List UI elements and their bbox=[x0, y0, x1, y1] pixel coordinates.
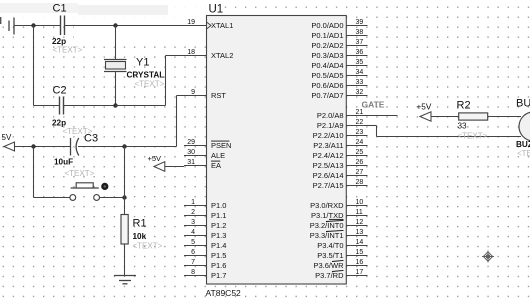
svg-text:28: 28 bbox=[356, 179, 364, 186]
svg-text:P0.6/AD6: P0.6/AD6 bbox=[311, 81, 343, 90]
svg-text:P3.0/RXD: P3.0/RXD bbox=[310, 201, 344, 210]
svg-text:8: 8 bbox=[191, 269, 195, 276]
ground symbol left (rotated, at left edge) bbox=[9, 18, 14, 35]
svg-text:P0.1/AD1: P0.1/AD1 bbox=[311, 31, 343, 40]
svg-text:C3: C3 bbox=[84, 133, 98, 145]
svg-text:18: 18 bbox=[187, 49, 195, 56]
svg-text:U1: U1 bbox=[209, 4, 224, 16]
svg-text:C1: C1 bbox=[53, 3, 67, 15]
svg-text:R2: R2 bbox=[457, 100, 471, 112]
buzzer BU1 (clipped at right edge) bbox=[519, 112, 530, 141]
svg-text:33: 33 bbox=[458, 122, 468, 131]
svg-text:9: 9 bbox=[191, 89, 195, 96]
wire: P2.1 route down bbox=[376, 126, 378, 137]
svg-text:P0.4/AD4: P0.4/AD4 bbox=[311, 61, 343, 70]
svg-text:P2.6/A14: P2.6/A14 bbox=[313, 171, 344, 180]
wire: x=33 vertical down to C2 row bbox=[33, 26, 35, 106]
power arrow +5V (buzzer supply) bbox=[417, 103, 432, 122]
svg-text:4: 4 bbox=[191, 229, 195, 236]
svg-text:+5V: +5V bbox=[148, 154, 162, 163]
wire: XTAL2 net horizontal to x=165 bbox=[116, 105, 166, 107]
white wash band under C1 row bbox=[74, 26, 306, 40]
svg-text:33: 33 bbox=[356, 79, 364, 86]
svg-text:P0.5/AD5: P0.5/AD5 bbox=[311, 71, 343, 80]
power arrow 5V (left edge, RST net) bbox=[2, 133, 15, 151]
svg-text:35: 35 bbox=[356, 59, 364, 66]
svg-text:1: 1 bbox=[191, 199, 195, 206]
svg-text:XTAL2: XTAL2 bbox=[211, 51, 233, 60]
U1 left pin numbers bbox=[187, 19, 195, 276]
svg-text:GATE: GATE bbox=[362, 100, 385, 110]
ground (bottom of R1) bbox=[114, 276, 136, 284]
wire: R1 bottom to ground bbox=[124, 244, 126, 276]
wire: +5V to EA pin 31 bbox=[165, 166, 184, 168]
capacitor C3 (electrolytic) bbox=[71, 138, 79, 156]
svg-text:2: 2 bbox=[191, 209, 195, 216]
svg-text:10: 10 bbox=[356, 199, 364, 206]
U1 right pin numbers bbox=[356, 19, 364, 276]
svg-text:AT89C52: AT89C52 bbox=[206, 288, 242, 298]
svg-text:ALE: ALE bbox=[211, 151, 225, 160]
junction node on top wire x=33 bbox=[31, 23, 35, 27]
U1 left pin names bbox=[211, 21, 233, 280]
svg-text:3: 3 bbox=[191, 219, 195, 226]
resistor R1 bbox=[121, 215, 128, 245]
svg-text:25: 25 bbox=[356, 149, 364, 156]
svg-text:P2.5/A13: P2.5/A13 bbox=[313, 161, 344, 170]
svg-text:P1.7: P1.7 bbox=[211, 271, 226, 280]
svg-text:P0.7/AD7: P0.7/AD7 bbox=[311, 91, 343, 100]
wire: button left lead bbox=[34, 197, 70, 199]
svg-text:RST: RST bbox=[211, 91, 226, 100]
wire: RST net vertical x=176 bbox=[176, 96, 178, 147]
svg-text:P3.2/INT0: P3.2/INT0 bbox=[310, 221, 344, 230]
svg-text:P3.4/T0: P3.4/T0 bbox=[317, 241, 343, 250]
wire: 5V arrow to C3 left plate bbox=[15, 146, 71, 148]
svg-text:17: 17 bbox=[356, 269, 364, 276]
svg-text:7: 7 bbox=[191, 259, 195, 266]
svg-text:<TE: <TE bbox=[517, 149, 530, 158]
wire: C2 right plate to crystal bottom junction bbox=[64, 105, 116, 107]
svg-text:P1.6: P1.6 bbox=[211, 261, 226, 270]
svg-text:PSEN: PSEN bbox=[211, 141, 231, 150]
svg-text:<TEXT>: <TEXT> bbox=[53, 46, 83, 55]
svg-text:P1.0: P1.0 bbox=[211, 201, 226, 210]
wire: GATE net from pin 21 bbox=[368, 115, 398, 117]
button interaction knob bbox=[101, 183, 108, 190]
svg-text:<TEXT>: <TEXT> bbox=[458, 132, 488, 141]
origin marker (diamond crosshair) bbox=[482, 251, 494, 263]
svg-text:P1.5: P1.5 bbox=[211, 251, 226, 260]
junction node on top wire x=115 bbox=[113, 23, 117, 27]
svg-text:P2.0/A8: P2.0/A8 bbox=[317, 111, 344, 120]
wire: XTAL2 net vertical x=165 bbox=[165, 56, 167, 106]
svg-text:P2.7/A15: P2.7/A15 bbox=[313, 181, 344, 190]
svg-text:P3.1/TXD: P3.1/TXD bbox=[311, 211, 344, 220]
svg-text:P3.6/WR: P3.6/WR bbox=[313, 261, 344, 270]
wire: crystal bottom to XTAL2 net bbox=[115, 72, 117, 106]
svg-text:10uF: 10uF bbox=[54, 158, 73, 167]
capacitor C1 bbox=[61, 16, 65, 36]
wire: R2 right to buzzer top terminal bbox=[488, 116, 521, 118]
wire: C2 left plate to x=33 vertical bbox=[34, 105, 60, 107]
wire: x=33 vertical down to push button row bbox=[33, 147, 35, 198]
wire: P2.1 route right bbox=[368, 125, 377, 127]
svg-text:P1.4: P1.4 bbox=[211, 241, 226, 250]
junction node RST rail x=33 bbox=[31, 144, 35, 148]
U1 left pin stub wires bbox=[184, 26, 207, 276]
wire: C1 right plate to U1 XTAL1 pin bbox=[65, 25, 207, 27]
svg-text:37: 37 bbox=[356, 39, 364, 46]
svg-text:32: 32 bbox=[356, 89, 364, 96]
XTAL1 clock input marker bbox=[207, 22, 212, 29]
crystal Y1 bbox=[104, 60, 127, 72]
wire: P2.1 route to buzzer bottom terminal bbox=[377, 136, 522, 138]
wire: XTAL2 net into U1 pin 18 bbox=[166, 55, 207, 57]
svg-text:XTAL1: XTAL1 bbox=[211, 21, 233, 30]
svg-text:P2.1/A9: P2.1/A9 bbox=[317, 121, 344, 130]
svg-text:24: 24 bbox=[356, 139, 364, 146]
svg-text:38: 38 bbox=[356, 29, 364, 36]
svg-text:11: 11 bbox=[356, 209, 363, 216]
wire: ground to C1 left plate (XTAL1 net) bbox=[14, 25, 61, 27]
svg-text:36: 36 bbox=[356, 49, 364, 56]
grey smudge streak top-left bbox=[0, 3, 78, 13]
svg-text:39: 39 bbox=[356, 19, 364, 26]
svg-text:P3.5/T1: P3.5/T1 bbox=[317, 251, 343, 260]
svg-text:Y1: Y1 bbox=[136, 57, 149, 69]
svg-text:14: 14 bbox=[356, 239, 364, 246]
svg-text:19: 19 bbox=[187, 19, 195, 26]
U1 right pin names bbox=[310, 21, 344, 280]
power arrow +5V (EA pin) bbox=[148, 154, 165, 171]
svg-text:10k: 10k bbox=[133, 232, 147, 241]
svg-text:6: 6 bbox=[191, 249, 195, 256]
svg-text:+5V: +5V bbox=[417, 103, 432, 112]
svg-text:31: 31 bbox=[187, 159, 195, 166]
svg-text:15: 15 bbox=[356, 249, 364, 256]
push button (reset switch) bbox=[70, 183, 100, 201]
junction node button-right x=124.5 bbox=[122, 195, 126, 199]
IC U1 AT89C52 body bbox=[207, 16, 347, 285]
svg-text:P1.2: P1.2 bbox=[211, 221, 226, 230]
resistor R2 bbox=[459, 113, 488, 120]
svg-text:<TEXT>: <TEXT> bbox=[133, 242, 163, 251]
svg-text:<TEXT>: <TEXT> bbox=[135, 80, 165, 89]
svg-text:26: 26 bbox=[356, 159, 364, 166]
svg-text:5V: 5V bbox=[2, 133, 12, 142]
svg-text:5: 5 bbox=[191, 239, 195, 246]
svg-text:P2.4/A12: P2.4/A12 bbox=[313, 151, 344, 160]
svg-text:27: 27 bbox=[356, 169, 364, 176]
svg-text:<TEXT>: <TEXT> bbox=[65, 169, 95, 178]
svg-text:P3.7/RD: P3.7/RD bbox=[315, 271, 344, 280]
svg-text:P3.3/INT1: P3.3/INT1 bbox=[310, 231, 344, 240]
junction node crystal bottom x=115 bbox=[113, 103, 117, 107]
junction node RST rail x=124.5 bbox=[122, 144, 126, 148]
wire: vertical x=124.5 from RST rail to R1 top bbox=[124, 147, 126, 215]
svg-text:22: 22 bbox=[356, 119, 364, 126]
svg-text:CRYSTAL: CRYSTAL bbox=[127, 71, 165, 80]
svg-text:21: 21 bbox=[356, 109, 364, 116]
wire: button right lead to junction bbox=[100, 197, 125, 199]
svg-text:P1.1: P1.1 bbox=[211, 211, 226, 220]
svg-text:23: 23 bbox=[356, 129, 364, 136]
wire: RST net into U1 pin 9 bbox=[177, 95, 207, 97]
wire: +5V arrow to R2 left bbox=[431, 116, 459, 118]
svg-text:34: 34 bbox=[356, 69, 364, 76]
svg-text:C2: C2 bbox=[53, 85, 67, 97]
svg-text:R1: R1 bbox=[133, 218, 147, 230]
wire: C3 right plate to RST corner bbox=[78, 146, 177, 148]
svg-text:16: 16 bbox=[356, 259, 364, 266]
svg-text:P2.2/A10: P2.2/A10 bbox=[313, 131, 344, 140]
svg-text:EA: EA bbox=[211, 161, 221, 170]
svg-text:30: 30 bbox=[187, 149, 195, 156]
capacitor C2 bbox=[60, 97, 64, 115]
svg-text:P0.0/AD0: P0.0/AD0 bbox=[311, 21, 343, 30]
svg-text:12: 12 bbox=[356, 219, 364, 226]
svg-text:P0.2/AD2: P0.2/AD2 bbox=[311, 41, 343, 50]
svg-text:P0.3/AD3: P0.3/AD3 bbox=[311, 51, 343, 60]
edge mark top-left bbox=[0, 17, 1, 24]
svg-text:BU1: BU1 bbox=[516, 98, 530, 110]
svg-text:29: 29 bbox=[187, 139, 195, 146]
white wash band top-left bbox=[0, 0, 213, 20]
U1 right pin stub wires bbox=[346, 26, 367, 276]
svg-text:P2.3/A11: P2.3/A11 bbox=[313, 141, 343, 150]
wire: x=115 vertical down to crystal top bbox=[115, 26, 117, 60]
svg-text:BUZZER: BUZZER bbox=[516, 140, 530, 149]
svg-text:P1.3: P1.3 bbox=[211, 231, 226, 240]
svg-text:13: 13 bbox=[356, 229, 364, 236]
